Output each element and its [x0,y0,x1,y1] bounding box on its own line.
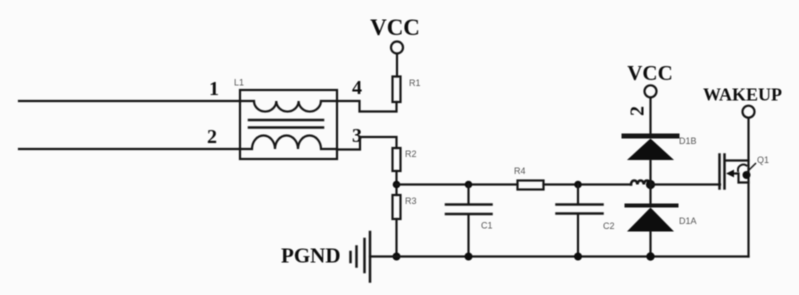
svg-text:1: 1 [209,78,219,100]
node C1 bottom junction [465,253,473,261]
wire bottom rail [370,255,749,257]
node junction R2/R3/rail [393,181,401,189]
svg-text:R2: R2 [405,149,417,159]
diode D1B [624,136,697,185]
svg-text:C2: C2 [603,221,615,231]
wire top rail right segment [651,183,721,185]
node C2 top junction [574,181,582,189]
svg-text:D1A: D1A [679,216,697,226]
wire right column (source to bottom rail) [747,119,749,257]
diode D1A [627,185,697,257]
capacitor C1 [446,185,493,257]
svg-text:VCC: VCC [370,15,420,40]
node R3 bottom junction [393,253,401,261]
transformer L1 [234,78,337,160]
svg-text:L1: L1 [234,78,244,88]
terminal WAKEUP [703,85,782,118]
node C1 top junction [465,181,473,189]
wire R2 to R3 [395,171,397,195]
power VCC terminal 2 [627,61,673,134]
svg-text:2: 2 [627,106,649,116]
svg-text:D1B: D1B [679,136,697,146]
wire R3 to bottom rail [395,219,397,257]
wire pin4 to R1 [337,101,397,112]
svg-text:C1: C1 [481,221,493,231]
power VCC terminal 1 [370,15,420,77]
resistor R3 [393,195,417,219]
svg-text:Q1: Q1 [757,155,769,165]
transistor Q1 (n-mosfet) [720,155,770,189]
svg-text:R1: R1 [409,78,421,88]
resistor R2 [393,148,417,171]
svg-text:4: 4 [352,77,362,99]
inductor bead on rail [631,180,650,184]
wire top rail left segment [397,183,518,185]
svg-text:R3: R3 [405,196,417,206]
resistor R4 [514,166,544,190]
node diode bottom junction [646,252,654,260]
resistor R1 [393,77,421,103]
wire input line 1 [19,100,240,102]
node diode junction [646,180,655,189]
wire input line 2 [19,148,240,150]
wire pin3 to R2 [337,137,397,150]
capacitor C2 [557,185,615,257]
svg-text:PGND: PGND [281,244,341,268]
ground PGND [281,232,370,282]
svg-text:2: 2 [207,126,217,148]
wire top rail mid segment [544,183,632,185]
svg-text:VCC: VCC [627,61,673,85]
node C2 bottom junction [574,253,582,261]
svg-text:R4: R4 [514,166,526,176]
svg-text:WAKEUP: WAKEUP [703,85,782,105]
